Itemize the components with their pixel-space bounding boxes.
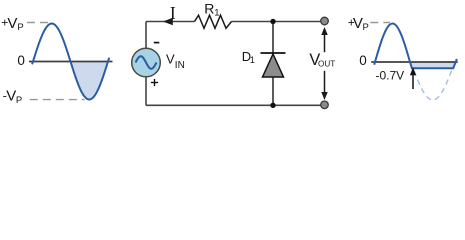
svg-text:1: 1 [214, 8, 219, 19]
svg-text:P: P [363, 22, 369, 33]
svg-text:1: 1 [250, 55, 255, 65]
svg-text:P: P [17, 22, 23, 33]
svg-text:IN: IN [175, 60, 185, 71]
svg-text:-0.7V: -0.7V [376, 69, 405, 83]
svg-text:0: 0 [359, 53, 367, 68]
svg-text:OUT: OUT [318, 59, 335, 68]
svg-text:V: V [6, 88, 16, 105]
svg-text:V: V [7, 15, 17, 32]
svg-text:R: R [204, 1, 214, 17]
svg-text:V: V [353, 15, 363, 32]
svg-text:I: I [170, 3, 176, 23]
svg-text:P: P [16, 95, 22, 106]
svg-text:0: 0 [17, 53, 25, 68]
svg-text:V: V [166, 51, 175, 66]
